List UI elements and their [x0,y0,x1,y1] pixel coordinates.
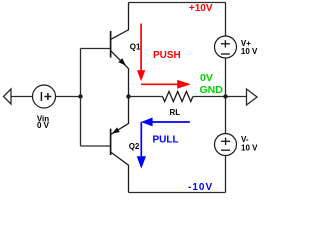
resistor RL [163,91,193,101]
wire resistor to supply node [193,96,247,98]
svg-text:10 V: 10 V [241,143,258,152]
node output junction [126,94,130,98]
voltage source V- [215,134,237,156]
node base junction [78,94,82,98]
svg-text:10 V: 10 V [241,47,258,56]
wire base bus vertical [80,49,82,147]
svg-text:Q1: Q1 [130,42,141,51]
annotation push current right arrow [141,80,191,89]
transistor Q1 [111,3,129,97]
voltage source V+ [215,36,237,58]
svg-text:0 V: 0 V [37,121,50,130]
wire V+ to supply node [225,58,227,97]
node supply junction [223,94,227,98]
wire top rail to V+ [225,3,227,37]
wire output node to resistor [129,96,163,98]
wire to Q2 base [81,145,111,147]
annotation push current down arrow [137,24,145,82]
transistor Q2 [111,97,129,193]
svg-text:0V: 0V [200,72,213,84]
svg-text:GND: GND [200,84,224,96]
svg-text:-10V: -10V [188,182,213,193]
wire V- to bottom rail [225,156,227,193]
svg-text:Q2: Q2 [129,142,140,151]
wire to Q1 base [81,48,111,50]
wire top rail [129,2,226,4]
wire Vin to base node [56,96,81,98]
svg-text:PUSH: PUSH [153,50,181,61]
output port [247,89,258,105]
voltage source Vin [33,85,56,108]
wire bottom rail [129,192,226,194]
wire port to Vin [11,96,33,98]
svg-text:RL: RL [169,108,180,117]
svg-text:+10V: +10V [189,3,213,14]
wire supply node to V- [225,97,227,134]
annotation pull current down arrow [137,122,146,169]
annotation pull current left arrow [141,118,190,127]
input port [4,89,12,104]
svg-text:PULL: PULL [153,134,179,145]
